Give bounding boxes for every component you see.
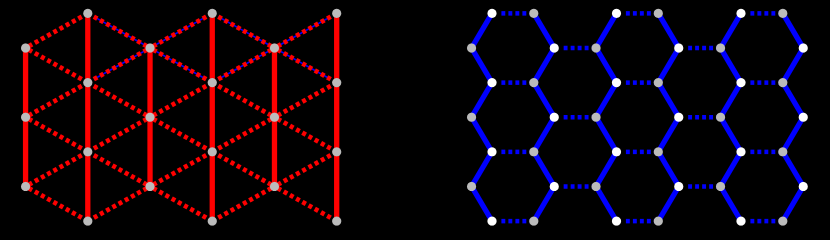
node: triangular-lattice gray node 14 (26,117) (21, 113, 30, 122)
wire: blue solid bond 31 (472,186)-(492,221) (472, 186, 492, 221)
wire: blue solid bond 26 (616,152)-(596,186) (596, 152, 616, 187)
node: honeycomb gray node 24 (783,221) (778, 216, 787, 225)
node: triangular-lattice gray node 3 (88,152) (83, 147, 92, 156)
node: honeycomb white node 38 (554,186) (550, 182, 559, 191)
node: honeycomb white node 26 (554,48) (550, 43, 559, 52)
wire: blue dashed bond 17 W(554,186)-G(596,186) (564, 184, 593, 189)
wire: red solid vertical bond 10 col B1 (23, 48, 28, 117)
wire: blue dashed bond 9 W(741,152)-G(783,152) (750, 150, 779, 155)
wire: blue dashed bond 14 W(679,48)-G(721,48) (688, 46, 717, 51)
wire: red dashed diagonal bond 1 A(88,13)-B(26,48) (26, 13, 88, 48)
wire: blue dashed bond 7 W(492,152)-G(534,152) (501, 150, 530, 155)
node: triangular-lattice gray node 16 (150,48) (145, 43, 154, 52)
node: honeycomb white node 3 (616,13) (612, 9, 621, 18)
wire: red dashed diagonal bond 14 A(212,152)-B(150,117) (150, 117, 212, 152)
wire: red dashed diagonal bond 17 A(212,152)-B(150,186) (150, 152, 212, 187)
wire: red dashed diagonal bond 19 A(212,13)-B(274,48) (212, 13, 274, 48)
node: triangular-lattice gray node 6 (212,83) (208, 78, 217, 87)
node: triangular-lattice gray node 1 (88,13) (83, 9, 92, 18)
node: triangular-lattice gray node 2 (88,83) (83, 78, 92, 87)
wire: red solid vertical bond 8 col A3 (334, 83, 339, 152)
wire: red solid vertical bond 14 col B3 (272, 48, 277, 117)
node: honeycomb gray node 4 (658,13) (654, 9, 663, 18)
wire: thin blue underlay 4 on diagonal bond A(212,83)-B(150,48) (154, 50, 206, 79)
node: triangular-lattice gray node 8 (212,221) (208, 216, 217, 225)
node: honeycomb white node 11 (741,83) (736, 78, 745, 87)
wire: blue solid bond 1 (492,13)-(472,48) (472, 13, 492, 48)
wire: blue dashed bond 10 W(492,221)-G(534,221) (501, 219, 530, 224)
node: triangular-lattice gray node 20 (274,117) (270, 113, 279, 122)
node: honeycomb white node 42 (803,186) (799, 182, 808, 191)
node: triangular-lattice gray node 17 (150,117) (145, 113, 154, 122)
wire: blue solid bond 5 (658,13)-(679,48) (658, 13, 678, 48)
wire: blue dashed bond 12 W(741,221)-G(783,221) (750, 219, 779, 224)
wire: blue solid bond 27 (741,152)-(721,186) (721, 152, 741, 187)
wire: blue solid bond 35 (679,186)-(658,221) (658, 186, 678, 221)
node: honeycomb white node 9 (616,83) (612, 78, 621, 87)
wire: red solid vertical bond 11 col B1 (23, 117, 28, 186)
wire: thin blue underlay 7 on diagonal bond A(337,13)-B(274,48) (278, 17, 330, 46)
wire: red dashed diagonal bond 28 A(212,221)-B(274,186) (212, 186, 274, 221)
node: honeycomb white node 15 (616,152) (612, 147, 621, 156)
wire: blue dashed bond 15 W(554,117)-G(596,117) (564, 115, 593, 120)
node: honeycomb gray node 2 (534,13) (529, 9, 538, 18)
wire: blue solid bond 9 (721,48)-(741,83) (721, 48, 741, 83)
node: honeycomb white node 1 (492,13) (487, 9, 496, 18)
node: triangular-lattice gray node 4 (88,221) (83, 216, 92, 225)
wire: red dashed diagonal bond 18 A(212,221)-B(150,186) (150, 186, 212, 221)
wire: blue dashed bond 5 W(616,83)-G(658,83) (626, 80, 655, 85)
node: honeycomb gray node 33 (596,117) (591, 113, 600, 122)
wire: blue solid bond 16 (534,83)-(554,117) (534, 83, 554, 118)
node: honeycomb white node 36 (803,117) (799, 113, 808, 122)
node: honeycomb white node 5 (741,13) (736, 9, 745, 18)
wire: blue dashed bond 11 W(616,221)-G(658,221) (626, 219, 655, 224)
node: honeycomb white node 19 (492,221) (487, 216, 496, 225)
wire: blue solid bond 18 (783,83)-(803,117) (783, 83, 803, 118)
wire: red solid vertical bond 2 col A1 (85, 83, 90, 152)
wire: blue solid bond 8 (596,48)-(616,83) (596, 48, 616, 83)
node: honeycomb gray node 29 (721,48) (716, 43, 725, 52)
wire: thin blue underlay 6 on diagonal bond A(212,83)-B(274,48) (218, 50, 270, 79)
wire: blue solid bond 20 (596,117)-(616,152) (596, 117, 616, 152)
wire: red dashed diagonal bond 29 A(337,152)-B(274,186) (274, 152, 336, 187)
wire: blue solid bond 11 (679,48)-(658,83) (658, 48, 678, 83)
node: honeycomb gray node 35 (721,117) (716, 113, 725, 122)
wire: red solid vertical bond 9 col A3 (334, 152, 339, 221)
wire: blue solid bond 23 (679,117)-(658,152) (658, 117, 678, 152)
node: triangular-lattice gray node 12 (337,221) (332, 216, 341, 225)
wire: blue solid bond 22 (554,117)-(534,152) (534, 117, 554, 152)
wire: red dashed diagonal bond 23 A(212,83)-B(274,117) (212, 83, 274, 118)
wire: blue solid bond 28 (534,152)-(554,186) (534, 152, 554, 187)
wire: blue dashed bond 8 W(616,152)-G(658,152) (626, 150, 655, 155)
node: honeycomb gray node 18 (783,152) (778, 147, 787, 156)
node: honeycomb gray node 14 (534,152) (529, 147, 538, 156)
node: triangular-lattice gray node 11 (337,152) (332, 147, 341, 156)
wire: red solid vertical bond 12 col B2 (147, 48, 152, 117)
wire: blue solid bond 12 (803,48)-(783,83) (783, 48, 803, 83)
node: triangular-lattice gray node 13 (26,48) (21, 43, 30, 52)
wire: thin blue underlay 8 on diagonal bond A(337,83)-B(274,48) (278, 50, 330, 79)
wire: red solid vertical bond 4 col A2 (210, 13, 215, 82)
wire: thin blue underlay 3 on diagonal bond A(212,13)-B(150,48) (154, 17, 206, 46)
node: honeycomb gray node 16 (658,152) (654, 147, 663, 156)
wire: red dashed diagonal bond 22 A(337,83)-B(274,48) (274, 48, 336, 83)
node: honeycomb white node 17 (741,152) (736, 147, 745, 156)
wire: red solid vertical bond 5 col A2 (210, 83, 215, 152)
wire: red dashed diagonal bond 21 A(337,13)-B(274,48) (274, 13, 336, 48)
wire: blue solid bond 21 (721,117)-(741,152) (721, 117, 741, 152)
wire: blue dashed bond 4 W(492,83)-G(534,83) (501, 80, 530, 85)
wire: red solid vertical bond 7 col A3 (334, 13, 339, 82)
node: honeycomb white node 13 (492,152) (487, 147, 496, 156)
node: honeycomb gray node 25 (472,48) (467, 43, 476, 52)
node: triangular-lattice gray node 10 (337,83) (332, 78, 341, 87)
wire: red solid vertical bond 3 col A1 (85, 152, 90, 221)
wire: blue solid bond 14 (616,83)-(596,117) (596, 83, 616, 118)
wire: red solid vertical bond 13 col B2 (147, 117, 152, 186)
node: honeycomb gray node 39 (596,186) (591, 182, 600, 191)
node: honeycomb gray node 10 (658,83) (654, 78, 663, 87)
wire: red solid vertical bond 15 col B3 (272, 117, 277, 186)
wire: red dashed diagonal bond 26 A(337,152)-B(274,117) (274, 117, 336, 152)
wire: red dashed diagonal bond 10 A(212,83)-B(150,48) (150, 48, 212, 83)
wire: red dashed diagonal bond 5 A(88,152)-B(26,186) (26, 152, 88, 187)
node: honeycomb white node 34 (679,117) (674, 113, 683, 122)
wire: red dashed diagonal bond 2 A(88,83)-B(26,48) (26, 48, 88, 83)
wire: red dashed diagonal bond 4 A(88,152)-B(26,117) (26, 117, 88, 152)
wire: red dashed diagonal bond 8 A(88,83)-B(150,48) (88, 48, 150, 83)
node: triangular-lattice gray node 15 (26,186) (21, 182, 30, 191)
wire: blue solid bond 30 (783,152)-(803,186) (783, 152, 803, 187)
node: honeycomb white node 23 (741,221) (736, 216, 745, 225)
wire: blue solid bond 24 (803,117)-(783,152) (783, 117, 803, 152)
node: honeycomb gray node 41 (721,186) (716, 182, 725, 191)
node: triangular-lattice gray node 21 (274,186) (270, 182, 279, 191)
wire: blue solid bond 34 (554,186)-(534,221) (534, 186, 554, 221)
wire: blue dashed bond 13 W(554,48)-G(596,48) (564, 46, 593, 51)
wire: blue solid bond 13 (492,83)-(472,117) (472, 83, 492, 118)
wire: blue solid bond 33 (721,186)-(741,221) (721, 186, 741, 221)
wire: red dashed diagonal bond 20 A(212,83)-B(274,48) (212, 48, 274, 83)
wire: blue dashed bond 2 W(616,13)-G(658,13) (626, 11, 655, 16)
wire: blue dashed bond 16 W(679,117)-G(721,117) (688, 115, 717, 120)
wire: red solid vertical bond 6 col A2 (210, 152, 215, 221)
wire: red dashed diagonal bond 15 A(88,152)-B(150,186) (88, 152, 150, 187)
wire: red dashed diagonal bond 13 A(212,83)-B(150,117) (150, 83, 212, 118)
wire: blue solid bond 29 (658,152)-(679,186) (658, 152, 678, 187)
node: honeycomb gray node 12 (783,83) (778, 78, 787, 87)
node: honeycomb white node 28 (679,48) (674, 43, 683, 52)
node: honeycomb white node 30 (803,48) (799, 43, 808, 52)
node: triangular-lattice gray node 9 (337,13) (332, 9, 341, 18)
wire: blue dashed bond 18 W(679,186)-G(721,186) (688, 184, 717, 189)
wire: blue solid bond 32 (596,186)-(616,221) (596, 186, 616, 221)
wire: red dashed diagonal bond 9 A(212,13)-B(150,48) (150, 13, 212, 48)
wire: blue solid bond 15 (741,83)-(721,117) (721, 83, 741, 118)
wire: blue solid bond 19 (472,117)-(492,152) (472, 117, 492, 152)
node: honeycomb gray node 37 (472,186) (467, 182, 476, 191)
wire: red dashed diagonal bond 24 A(212,152)-B(274,117) (212, 117, 274, 152)
node: honeycomb white node 7 (492,83) (487, 78, 496, 87)
wire: red dashed diagonal bond 30 A(337,221)-B(274,186) (274, 186, 336, 221)
wire: thin blue underlay 5 on diagonal bond A(212,13)-B(274,48) (218, 17, 270, 46)
wire: red dashed diagonal bond 16 A(88,221)-B(150,186) (88, 186, 150, 221)
wire: red solid vertical bond 1 col A1 (85, 13, 90, 82)
wire: blue dashed bond 3 W(741,13)-G(783,13) (750, 11, 779, 16)
wire: red dashed diagonal bond 27 A(212,152)-B(274,186) (212, 152, 274, 187)
wire: blue solid bond 7 (472,48)-(492,83) (472, 48, 492, 83)
wire: red dashed diagonal bond 12 A(88,152)-B(150,117) (88, 117, 150, 152)
node: honeycomb gray node 31 (472,117) (467, 113, 476, 122)
wire: red dashed diagonal bond 6 A(88,221)-B(26,186) (26, 186, 88, 221)
wire: red dashed diagonal bond 7 A(88,13)-B(150,48) (88, 13, 150, 48)
wire: thin blue underlay 2 on diagonal bond A(88,83)-B(150,48) (94, 50, 146, 79)
node: honeycomb gray node 20 (534,221) (529, 216, 538, 225)
wire: red dashed diagonal bond 11 A(88,83)-B(150,117) (88, 83, 150, 118)
wire: blue solid bond 25 (492,152)-(472,186) (472, 152, 492, 187)
wire: blue solid bond 17 (658,83)-(679,117) (658, 83, 678, 118)
node: honeycomb gray node 8 (534,83) (529, 78, 538, 87)
wire: red dashed diagonal bond 3 A(88,83)-B(26,117) (26, 83, 88, 118)
node: honeycomb white node 32 (554,117) (550, 113, 559, 122)
wire: blue solid bond 4 (534,13)-(554,48) (534, 13, 554, 48)
node: triangular-lattice gray node 7 (212,152) (208, 147, 217, 156)
wire: blue solid bond 10 (554,48)-(534,83) (534, 48, 554, 83)
wire: blue solid bond 6 (783,13)-(803,48) (783, 13, 803, 48)
node: honeycomb gray node 6 (783,13) (778, 9, 787, 18)
node: triangular-lattice gray node 5 (212,13) (208, 9, 217, 18)
wire: blue dashed bond 1 W(492,13)-G(534,13) (501, 11, 530, 16)
wire: blue solid bond 2 (616,13)-(596,48) (596, 13, 616, 48)
wire: blue solid bond 36 (803,186)-(783,221) (783, 186, 803, 221)
node: triangular-lattice gray node 19 (274,48) (270, 43, 279, 52)
wire: blue solid bond 3 (741,13)-(721,48) (721, 13, 741, 48)
node: honeycomb white node 40 (679,186) (674, 182, 683, 191)
node: honeycomb white node 21 (616,221) (612, 216, 621, 225)
node: triangular-lattice gray node 18 (150,186) (145, 182, 154, 191)
wire: thin blue underlay 1 on diagonal bond A(88,13)-B(150,48) (94, 17, 146, 46)
node: honeycomb gray node 27 (596,48) (591, 43, 600, 52)
wire: blue dashed bond 6 W(741,83)-G(783,83) (750, 80, 779, 85)
wire: red dashed diagonal bond 25 A(337,83)-B(274,117) (274, 83, 336, 118)
node: honeycomb gray node 22 (658,221) (654, 216, 663, 225)
